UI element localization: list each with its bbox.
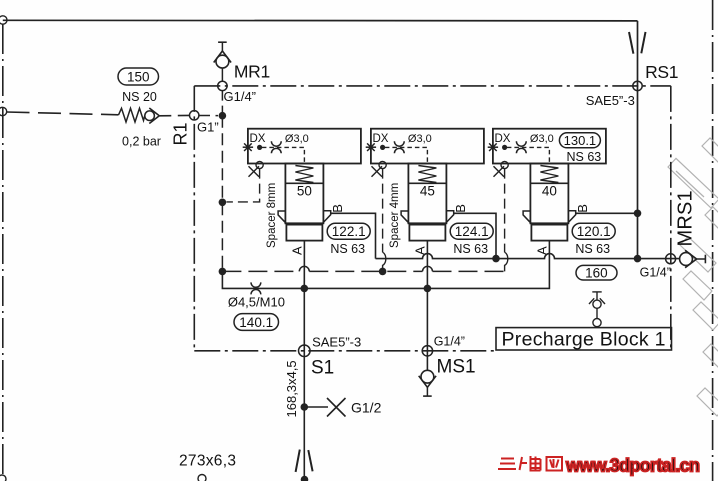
svg-text:NS 63: NS 63 [575,242,610,256]
pipe break marks at S1 drop [296,450,313,472]
svg-text:NS 63: NS 63 [330,242,365,256]
wire: port to node dash [199,115,218,117]
item oval 124.1 [450,223,493,239]
wire: valve2 B line [454,213,496,258]
svg-text:G1/2: G1/2 [351,400,382,416]
spring chamber divider [408,182,446,184]
item oval 130.1 in box [559,133,600,148]
node dot MS1 junction [424,285,432,293]
node dot at R1 column [219,112,227,120]
item oval 160 [576,265,617,280]
valve top box (pilot cap) [248,129,361,164]
vent port circle with X [501,161,508,168]
valve body upper [408,164,446,224]
svg-text:G1/4”: G1/4” [224,89,257,104]
node dot valve2 pilot on bus [379,268,387,276]
valve top box (pilot cap) [493,129,606,164]
svg-text:R1: R1 [171,122,191,145]
port R1 (G1") on left boundary [190,111,199,120]
svg-text:Ø3,0: Ø3,0 [285,133,309,145]
plugged port star on box edge [488,143,498,151]
svg-text:DX: DX [373,133,389,145]
svg-text:Spacer 8mm: Spacer 8mm [266,183,278,248]
svg-text:SAE5”-3: SAE5”-3 [586,93,635,108]
valve top box (pilot cap) [371,129,484,164]
block boundary top (dash-dot) [194,85,671,87]
svg-text:B: B [575,204,590,213]
spring chamber divider [285,182,323,184]
svg-text:273x6,3: 273x6,3 [179,453,236,470]
block boundary left (dash-dot) [193,86,195,351]
wire: valve3 B line [576,212,638,214]
port MS1 [422,346,432,356]
node: left frame port (R line) [0,107,7,115]
svg-text:0,2 bar: 0,2 bar [122,135,161,149]
wire: valve1 pilot (dashed) [227,169,260,202]
right seat wing [446,211,454,223]
plugged port X (G1/2) [327,398,346,417]
vent port circle with X [379,161,386,168]
node dot valve1 pilot junction [219,199,227,207]
svg-text:45: 45 [420,184,435,199]
check valve seat chevron [149,108,159,124]
wire: valve2 A drop [426,241,428,289]
left seat wing [523,211,531,223]
svg-text:B: B [453,204,468,213]
svg-text:MRS1: MRS1 [675,190,697,246]
svg-text:160: 160 [585,265,608,280]
wire: left sheet frame dash-dot [2,24,4,476]
svg-text:140.1: 140.1 [239,315,273,330]
node: left frame port top [0,16,7,24]
pipe break marks at RS1 riser [629,32,646,54]
check valve ball [145,111,155,121]
item oval 122.1 [327,223,370,239]
plugged port star on box edge [366,143,376,151]
pilot junction dot in box [257,145,262,150]
wire: MS1 drop [426,288,428,370]
valve body lower [409,225,445,241]
block boundary bottom (dash-dot) [194,350,497,352]
wire: valve3 pilot (dashed) with jog over B bus, joins bus corner [504,169,506,253]
node dot G1/2 branch [301,403,309,411]
wire: R1 column (dashed) down to pilot bus [221,116,223,272]
port S1 [299,345,311,357]
pilot junction dot in box [502,145,507,150]
svg-text:50: 50 [297,184,312,199]
svg-text:B: B [330,204,345,213]
wire: pilot bus (dashed) with hops [222,270,299,272]
wire: top supply line [3,19,638,22]
wire: right sheet frame dash-dot [712,0,714,481]
wire: valve2 pilot (dashed) with jog over B bus [382,169,384,253]
node dot valve3 B to RS1 riser [634,210,642,218]
node dot RS1 riser on bus [634,255,642,263]
valve body lower [531,225,567,241]
spring [540,166,558,183]
node dot valve2 B on bus [492,255,500,263]
svg-text:130.1: 130.1 [564,133,597,148]
spring chamber divider [530,182,568,184]
wire: MR1 stem [221,68,223,81]
orifice (venturi) 3,0 [271,141,281,153]
wire: R1 elbow to A bus [222,241,549,289]
valve body lower [286,225,322,241]
svg-text:DX: DX [495,133,511,145]
svg-text:124.1: 124.1 [455,224,489,239]
port MR1 [218,81,227,90]
svg-text:40: 40 [542,184,557,199]
red watermark [498,456,700,476]
svg-text:G1”: G1” [197,120,219,135]
check+plug MR1 [214,42,231,68]
wire: valve1 B line [331,213,376,258]
port MRS1 [666,254,676,264]
wire: valve1 A drop [303,241,305,289]
dashed pilot line in box [385,147,428,164]
block boundary right (dash-dot) [670,86,672,351]
check+plug MRS1 (points right) [680,250,706,267]
plugged port star on box edge [243,143,253,151]
orifice 4,5/M10 on A bus [251,282,261,294]
svg-text:MS1: MS1 [437,356,476,377]
svg-text:NS 63: NS 63 [453,242,488,256]
svg-text:www.3dportal.cn: www.3dportal.cn [565,456,700,476]
svg-text:120.1: 120.1 [577,224,611,239]
valve body upper [530,164,568,224]
node: left frame port bottom (partial) [0,475,6,481]
right seat wing [323,211,331,223]
relief check valve spring (0,2 bar) [119,108,145,122]
node dot bottom of S1 line [301,476,309,481]
wire: MR1 port to node (dashed) [221,91,223,112]
spring [295,166,313,183]
item oval 120.1 [572,223,615,239]
svg-text:A: A [289,246,304,255]
block name box [496,328,672,350]
svg-text:Ø3,0: Ø3,0 [408,133,432,145]
svg-text:S1: S1 [311,358,334,379]
wire: external R line (dashed) [7,112,119,115]
spring [418,166,436,183]
check+plug MS1 (points down) [419,370,436,396]
wire: S1 drop [303,288,305,478]
dashed pilot line in box [262,147,305,164]
wire: branch to plugged port [304,406,328,408]
vent port circle with X [256,161,263,168]
svg-text:G1/4”: G1/4” [640,265,671,279]
wire: RS1 riser [637,21,639,259]
svg-text:RS1: RS1 [645,62,678,82]
svg-text:MR1: MR1 [234,62,270,82]
orifice (venturi) 3,0 [516,141,526,153]
svg-text:Spacer 4mm: Spacer 4mm [389,183,401,248]
orifice (venturi) 3,0 [394,141,404,153]
watermark gray bars [668,138,718,416]
svg-text:122.1: 122.1 [332,224,366,239]
svg-text:DX: DX [250,133,266,145]
pilot junction dot in box [380,145,385,150]
svg-text:G1/4”: G1/4” [434,334,465,348]
valve body upper [285,164,323,224]
small circle bottom (partial) [198,475,206,481]
wire: check to R1 port (dashed) [159,114,189,116]
svg-text:Ø4,5/M10: Ø4,5/M10 [228,294,285,309]
gauge/charging port symbol [589,292,605,327]
dashed pilot line in box [507,147,550,164]
svg-text:168,3x4,5: 168,3x4,5 [284,360,299,417]
svg-text:150: 150 [127,70,150,85]
right seat wing [568,211,576,223]
left seat wing [401,211,409,223]
left seat wing [278,211,286,223]
item oval 150 [118,68,159,85]
svg-text:NS 63: NS 63 [567,150,602,164]
svg-text:SAE5”-3: SAE5”-3 [312,335,361,350]
item oval 140.1 [234,314,279,331]
node dot S1 junction [301,285,309,293]
wire: B bus with hops over A lines [376,254,680,259]
port RS1 [633,81,642,90]
svg-text:Precharge Block 1: Precharge Block 1 [502,328,666,350]
svg-text:Ø3,0: Ø3,0 [530,133,554,145]
svg-text:NS 20: NS 20 [122,90,157,104]
node dot on pilot bus at R1 column [219,268,227,276]
